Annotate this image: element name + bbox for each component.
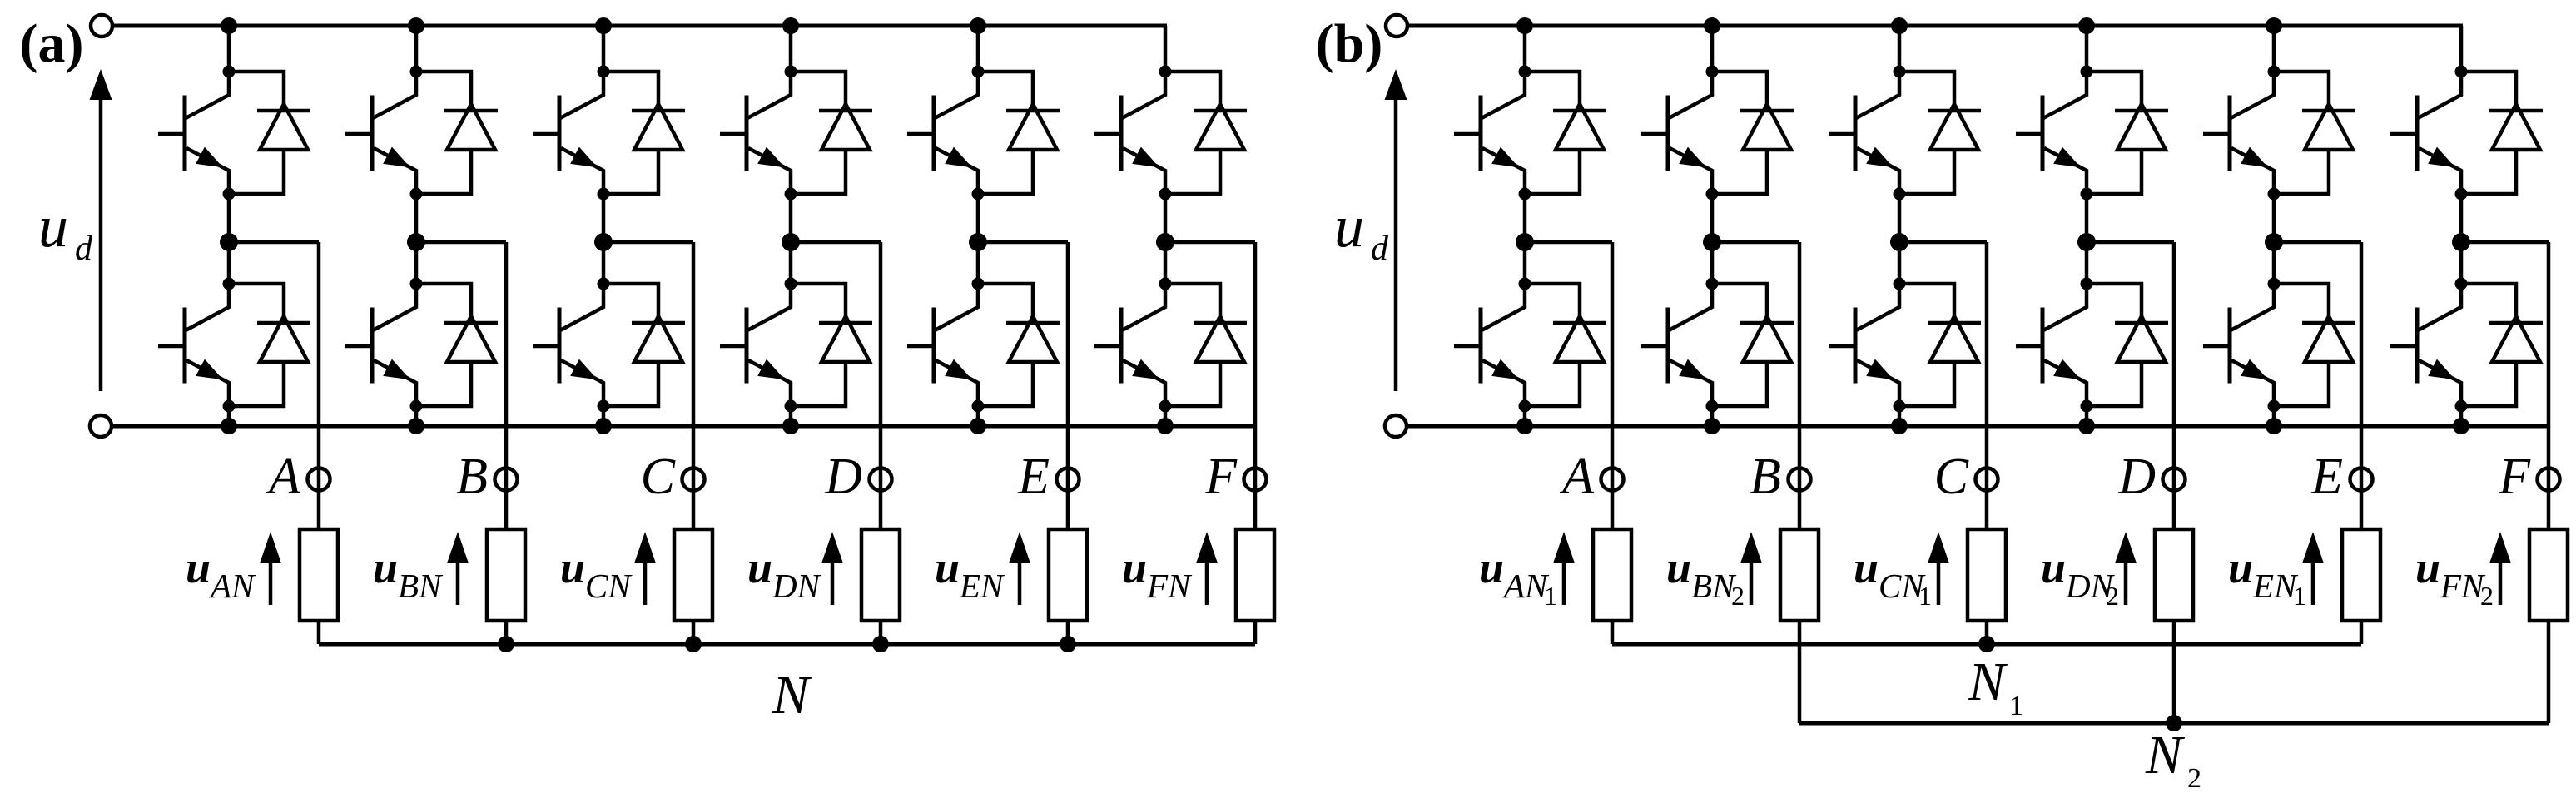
svg-text:u: u <box>1479 543 1504 592</box>
svg-text:C: C <box>1934 449 1969 505</box>
svg-text:C: C <box>641 449 676 505</box>
svg-text:BN: BN <box>1691 567 1737 605</box>
svg-text:2: 2 <box>1731 581 1745 611</box>
svg-text:1: 1 <box>1918 581 1932 611</box>
svg-text:2: 2 <box>2106 581 2119 611</box>
svg-text:2: 2 <box>2480 581 2494 611</box>
svg-text:F: F <box>1204 449 1238 505</box>
svg-text:u: u <box>2228 543 2253 592</box>
svg-text:d: d <box>75 230 93 268</box>
svg-text:B: B <box>456 449 488 505</box>
svg-text:N: N <box>1968 652 2008 712</box>
svg-text:1: 1 <box>2009 691 2023 721</box>
svg-text:N: N <box>772 665 812 726</box>
svg-text:1: 1 <box>1544 581 1557 611</box>
svg-text:2: 2 <box>2187 763 2201 793</box>
svg-text:D: D <box>2117 449 2156 505</box>
svg-text:u: u <box>1854 543 1879 592</box>
svg-text:E: E <box>2310 449 2343 505</box>
svg-text:u: u <box>1666 543 1691 592</box>
svg-text:A: A <box>1559 449 1595 505</box>
svg-text:u: u <box>2041 543 2066 592</box>
svg-text:F: F <box>2498 449 2531 505</box>
svg-text:AN: AN <box>1501 567 1550 605</box>
svg-text:DN: DN <box>772 567 822 605</box>
svg-text:BN: BN <box>398 567 444 605</box>
svg-text:u: u <box>38 193 68 260</box>
svg-text:EN: EN <box>959 567 1005 605</box>
svg-text:FN: FN <box>1146 567 1193 605</box>
svg-text:u: u <box>2415 543 2440 592</box>
svg-text:u: u <box>935 543 960 592</box>
svg-text:u: u <box>560 543 585 592</box>
svg-text:u: u <box>186 543 211 592</box>
svg-text:u: u <box>747 543 772 592</box>
svg-text:u: u <box>1334 193 1364 260</box>
svg-text:EN: EN <box>2252 567 2299 605</box>
svg-text:AN: AN <box>208 567 256 605</box>
svg-text:D: D <box>824 449 862 505</box>
svg-text:1: 1 <box>2293 581 2306 611</box>
svg-text:d: d <box>1371 230 1389 268</box>
svg-text:(a): (a) <box>20 13 84 74</box>
svg-text:A: A <box>266 449 301 505</box>
svg-text:FN: FN <box>2440 567 2486 605</box>
svg-text:CN: CN <box>585 567 633 605</box>
svg-text:E: E <box>1017 449 1050 505</box>
svg-text:B: B <box>1750 449 1781 505</box>
svg-text:u: u <box>1122 543 1147 592</box>
svg-text:N: N <box>2145 725 2186 786</box>
svg-text:u: u <box>373 543 398 592</box>
svg-text:(b): (b) <box>1316 13 1383 74</box>
